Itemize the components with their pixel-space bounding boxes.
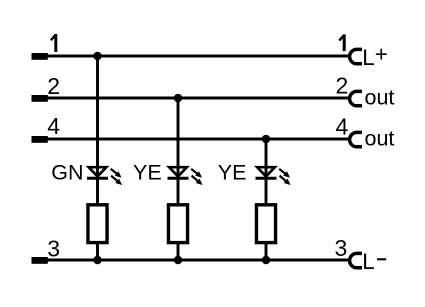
svg-text:3: 3 (335, 235, 348, 261)
pin number 1 right (339, 35, 344, 41)
svg-text:GN: GN (51, 160, 83, 184)
svg-text:4: 4 (47, 113, 60, 139)
terminal pin 3 left (32, 257, 48, 264)
resistor R1 (88, 205, 107, 243)
LED YE (V2) light emission arrows (191, 169, 199, 176)
junction branch1 / L+ (93, 52, 102, 61)
svg-text:YE: YE (218, 160, 247, 184)
svg-text:L: L (362, 249, 374, 274)
svg-text:out: out (365, 127, 395, 151)
resistor R3 (256, 205, 275, 243)
pin number 1 left (51, 35, 56, 41)
junction branch2 / out (174, 94, 183, 103)
svg-text:2: 2 (336, 72, 349, 98)
junction branch1 / L- (93, 256, 102, 265)
terminal pin 1 left (32, 53, 48, 60)
terminal pin 2 left (32, 95, 48, 102)
connector socket pin 2 (350, 91, 362, 105)
wire vertical branch 2 (177, 98, 180, 260)
LED GN (V1) light emission arrows (111, 169, 119, 176)
svg-text:YE: YE (133, 160, 162, 184)
net L- minus dash (377, 258, 386, 260)
LED GN (V1) (89, 167, 107, 176)
svg-text:2: 2 (47, 73, 60, 99)
junction branch3 / L- (262, 256, 271, 265)
connector socket pin 1 (350, 49, 362, 63)
wire vertical branch 3 (265, 139, 268, 260)
wire 2 horizontal (46, 97, 349, 100)
svg-text:3: 3 (47, 235, 60, 261)
wire 4 horizontal (46, 138, 349, 141)
connector socket pin 3 (350, 253, 362, 267)
LED YE (V3) light emission arrows (279, 169, 287, 176)
svg-text:4: 4 (336, 113, 349, 139)
LED YE (V3) (257, 167, 275, 176)
resistor R2 (168, 205, 187, 243)
wire 1 horizontal (46, 55, 349, 58)
wire 3 horizontal (46, 259, 349, 262)
junction branch3 / out (262, 135, 271, 144)
LED YE (V2) (169, 167, 187, 176)
terminal pin 4 left (32, 136, 48, 143)
connector socket pin 4 (350, 132, 362, 146)
wire vertical branch 1 (96, 56, 99, 260)
svg-text:out: out (365, 86, 395, 110)
junction branch2 / L- (174, 256, 183, 265)
svg-text:L+: L+ (362, 41, 387, 70)
